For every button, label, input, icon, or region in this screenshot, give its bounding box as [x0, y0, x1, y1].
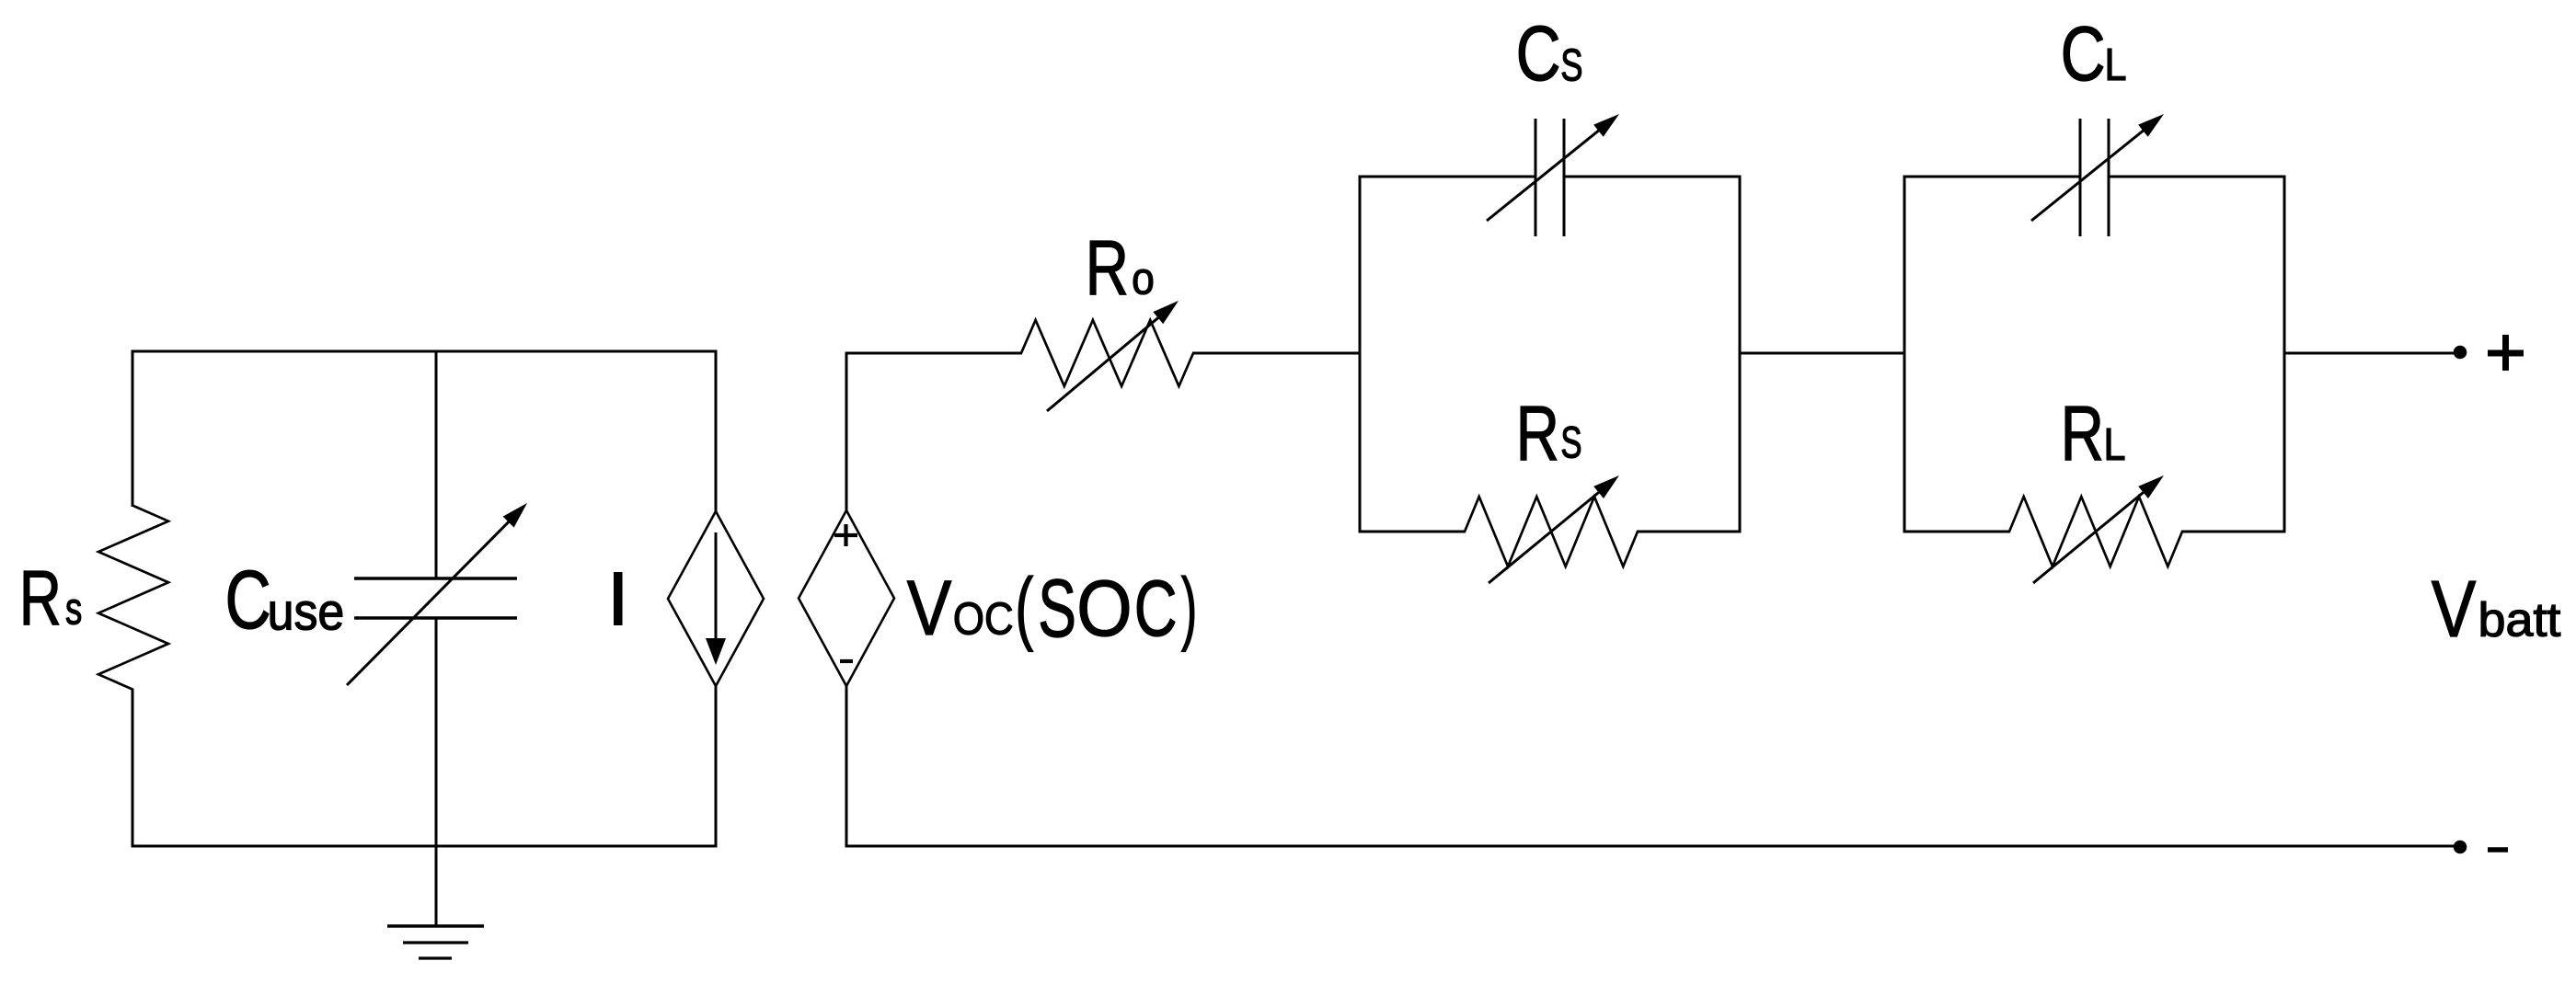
wire: current-source branch lower [715, 685, 718, 848]
svg-text:s: s [65, 584, 82, 635]
wire: left-loop top rail [132, 350, 718, 353]
resistor RS variable arrow [1489, 486, 1607, 583]
capacitor CL variable arrow [2031, 124, 2151, 221]
svg-text:R: R [2061, 390, 2104, 476]
voltage source minus mark [840, 659, 853, 663]
ground symbol line 1 [387, 924, 484, 927]
label I (current source) [614, 572, 623, 625]
capacitor Cuse variable arrow [347, 514, 516, 685]
wire: top rail Ro to box1 [1192, 352, 1362, 355]
resistor RL variable arrow [2033, 486, 2152, 583]
wire: RC-group2 top edge left [1903, 176, 2081, 178]
svg-text:batt: batt [2478, 593, 2561, 646]
wire: RC-group1 bottom edge left [1360, 531, 1466, 533]
voltage source Voc diamond [799, 510, 894, 686]
svg-text:(: ( [1015, 561, 1033, 652]
svg-text:L: L [2104, 419, 2126, 470]
svg-text:use: use [268, 582, 345, 640]
svg-text:S: S [1560, 40, 1582, 91]
svg-text:o: o [1132, 254, 1155, 304]
wire: RC-group2 bottom edge right [2181, 531, 2286, 533]
terminal minus mark [2488, 847, 2508, 852]
resistor Ro (variable, horizontal zigzag) [1021, 320, 1193, 386]
wire: RC-group1 bottom edge right [1637, 531, 1742, 533]
wire: RC-group1 top edge left [1359, 176, 1536, 178]
wire: top rail box2 to + terminal [2283, 352, 2455, 355]
wire: Voc top lead [845, 353, 848, 512]
capacitor CS right plate [1563, 119, 1566, 236]
svg-text:R: R [19, 555, 62, 641]
current source I arrow [715, 532, 718, 644]
resistor RS (group1, horizontal zigzag) [1465, 497, 1638, 566]
capacitor CS left plate [1535, 119, 1537, 236]
wire: capacitor branch upper [435, 350, 438, 579]
wire: RC-group1 right edge [1739, 176, 1742, 533]
capacitor CL right plate [2108, 119, 2110, 236]
ground symbol line 2 [403, 941, 468, 944]
svg-text:C: C [1516, 9, 1561, 97]
svg-text:OC: OC [953, 594, 1014, 645]
node: + terminal dot [2454, 346, 2467, 360]
current source I diamond [668, 511, 764, 686]
wire: RC-group1 top edge right [1564, 176, 1742, 178]
wire: Voc bottom lead [845, 685, 848, 848]
wire: bottom rail Voc to - terminal [846, 845, 2454, 848]
svg-text:O: O [1076, 565, 1132, 653]
svg-text:V: V [907, 565, 952, 651]
svg-text:C: C [1134, 565, 1178, 653]
resistor RS (left, vertical zigzag) [98, 506, 168, 690]
capacitor CS variable arrow [1487, 124, 1606, 221]
svg-text:V: V [2432, 565, 2477, 654]
svg-text:R: R [1086, 224, 1129, 311]
wire: current-source branch upper [715, 350, 718, 513]
terminal plus mark [2488, 350, 2524, 357]
resistor RL (group2, horizontal zigzag) [2009, 497, 2182, 566]
capacitor Cuse bottom plate [354, 616, 517, 620]
wire: rail box1 to box2 [1739, 352, 1906, 355]
ground symbol line 3 [419, 956, 452, 959]
voltage source plus mark [834, 533, 857, 537]
svg-text:C: C [225, 554, 271, 646]
svg-text:S: S [1038, 562, 1076, 654]
capacitor CL left plate [2079, 119, 2082, 236]
capacitor Cuse top plate [354, 577, 517, 580]
wire: RC-group2 bottom edge left [1904, 531, 2010, 533]
wire: RC-group2 top edge right [2109, 176, 2286, 178]
resistor Ro variable arrow [1047, 311, 1167, 411]
svg-text:): ) [1181, 561, 1198, 652]
wire: left-loop bottom rail [132, 845, 718, 848]
wire: RC-group2 right edge [2283, 176, 2286, 533]
svg-text:L: L [2105, 40, 2127, 90]
wire: top rail Voc to Ro [845, 352, 1022, 355]
wire: capacitor branch lower to ground [435, 618, 438, 926]
svg-text:S: S [1560, 419, 1581, 468]
svg-text:C: C [2061, 11, 2106, 97]
svg-text:R: R [1516, 390, 1559, 476]
wire: left-loop left edge upper [132, 350, 134, 508]
wire: left-loop left edge lower [132, 689, 134, 848]
node: - terminal dot [2454, 841, 2467, 854]
wire: RC-group2 left edge [1903, 176, 1906, 533]
wire: RC-group1 left edge [1359, 176, 1362, 533]
